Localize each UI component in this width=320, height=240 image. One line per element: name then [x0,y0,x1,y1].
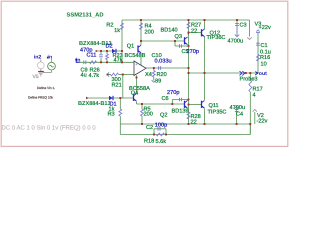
svg-text:TIP35C: TIP35C [208,110,227,116]
svg-text:in: in [76,58,81,64]
svg-text:C4: C4 [236,112,243,118]
svg-text:Q4: Q4 [131,90,138,96]
svg-text:out: out [259,71,267,77]
svg-text:Define Vin 1.: Define Vin 1. [37,86,55,90]
svg-text:4.7k: 4.7k [89,72,100,79]
svg-text:BD139: BD139 [172,108,189,114]
svg-text:BD140: BD140 [161,28,178,34]
svg-text:SSM2131_AD: SSM2131_AD [67,12,104,19]
svg-text:4u: 4u [81,73,87,79]
svg-text:47k: 47k [114,57,123,64]
svg-text:5.6k: 5.6k [156,138,167,145]
svg-text:Q2: Q2 [160,112,167,118]
svg-text:200: 200 [145,30,154,36]
svg-text:C1: C1 [261,43,268,49]
svg-text:0.033u: 0.033u [155,59,172,65]
svg-text:V5: V5 [33,74,39,80]
svg-text:C2: C2 [146,125,153,131]
svg-text:DC 0 AC 1 0 Sin 0 1v (FREQ) 0: DC 0 AC 1 0 Sin 0 1v (FREQ) 0 0 0 [2,125,97,132]
svg-text:Q1: Q1 [127,43,134,49]
svg-text:R16: R16 [260,55,270,61]
svg-text:270p: 270p [167,90,179,96]
svg-text:39: 39 [155,79,161,85]
svg-text:TIP36C: TIP36C [207,35,226,41]
svg-text:R18: R18 [144,138,154,144]
svg-text:4700u: 4700u [228,39,244,45]
svg-text:270p: 270p [187,49,199,55]
svg-text:Probe3: Probe3 [240,75,258,82]
svg-text:200: 200 [144,112,153,118]
svg-text:BZX884-B13: BZX884-B13 [78,101,111,107]
svg-text:10: 10 [261,61,267,67]
svg-text:BC548B: BC548B [125,53,146,59]
svg-text:100p: 100p [155,123,167,129]
svg-text:C11: C11 [87,53,97,59]
svg-text:4700u: 4700u [230,105,246,111]
svg-text:R20: R20 [157,72,167,78]
svg-text:D2: D2 [106,44,113,50]
svg-text:Q11: Q11 [209,103,219,109]
svg-text:22: 22 [191,28,197,34]
svg-text:Define FREQ 10k: Define FREQ 10k [28,95,53,99]
svg-text:Q3: Q3 [175,34,182,40]
svg-text:X4: X4 [145,72,152,78]
svg-text:R2: R2 [106,23,113,29]
svg-text:C6: C6 [162,96,169,102]
svg-text:C3: C3 [240,22,247,28]
svg-text:-22v: -22v [257,118,268,124]
svg-text:R21: R21 [112,82,122,88]
svg-text:R3: R3 [108,112,115,118]
svg-text:22: 22 [191,120,197,126]
svg-text:4: 4 [253,92,256,98]
svg-text:+22v: +22v [259,25,271,31]
svg-text:+: + [135,63,137,67]
svg-text:in2: in2 [34,54,42,60]
svg-text:in: in [48,54,53,60]
svg-text:1k: 1k [114,27,120,34]
